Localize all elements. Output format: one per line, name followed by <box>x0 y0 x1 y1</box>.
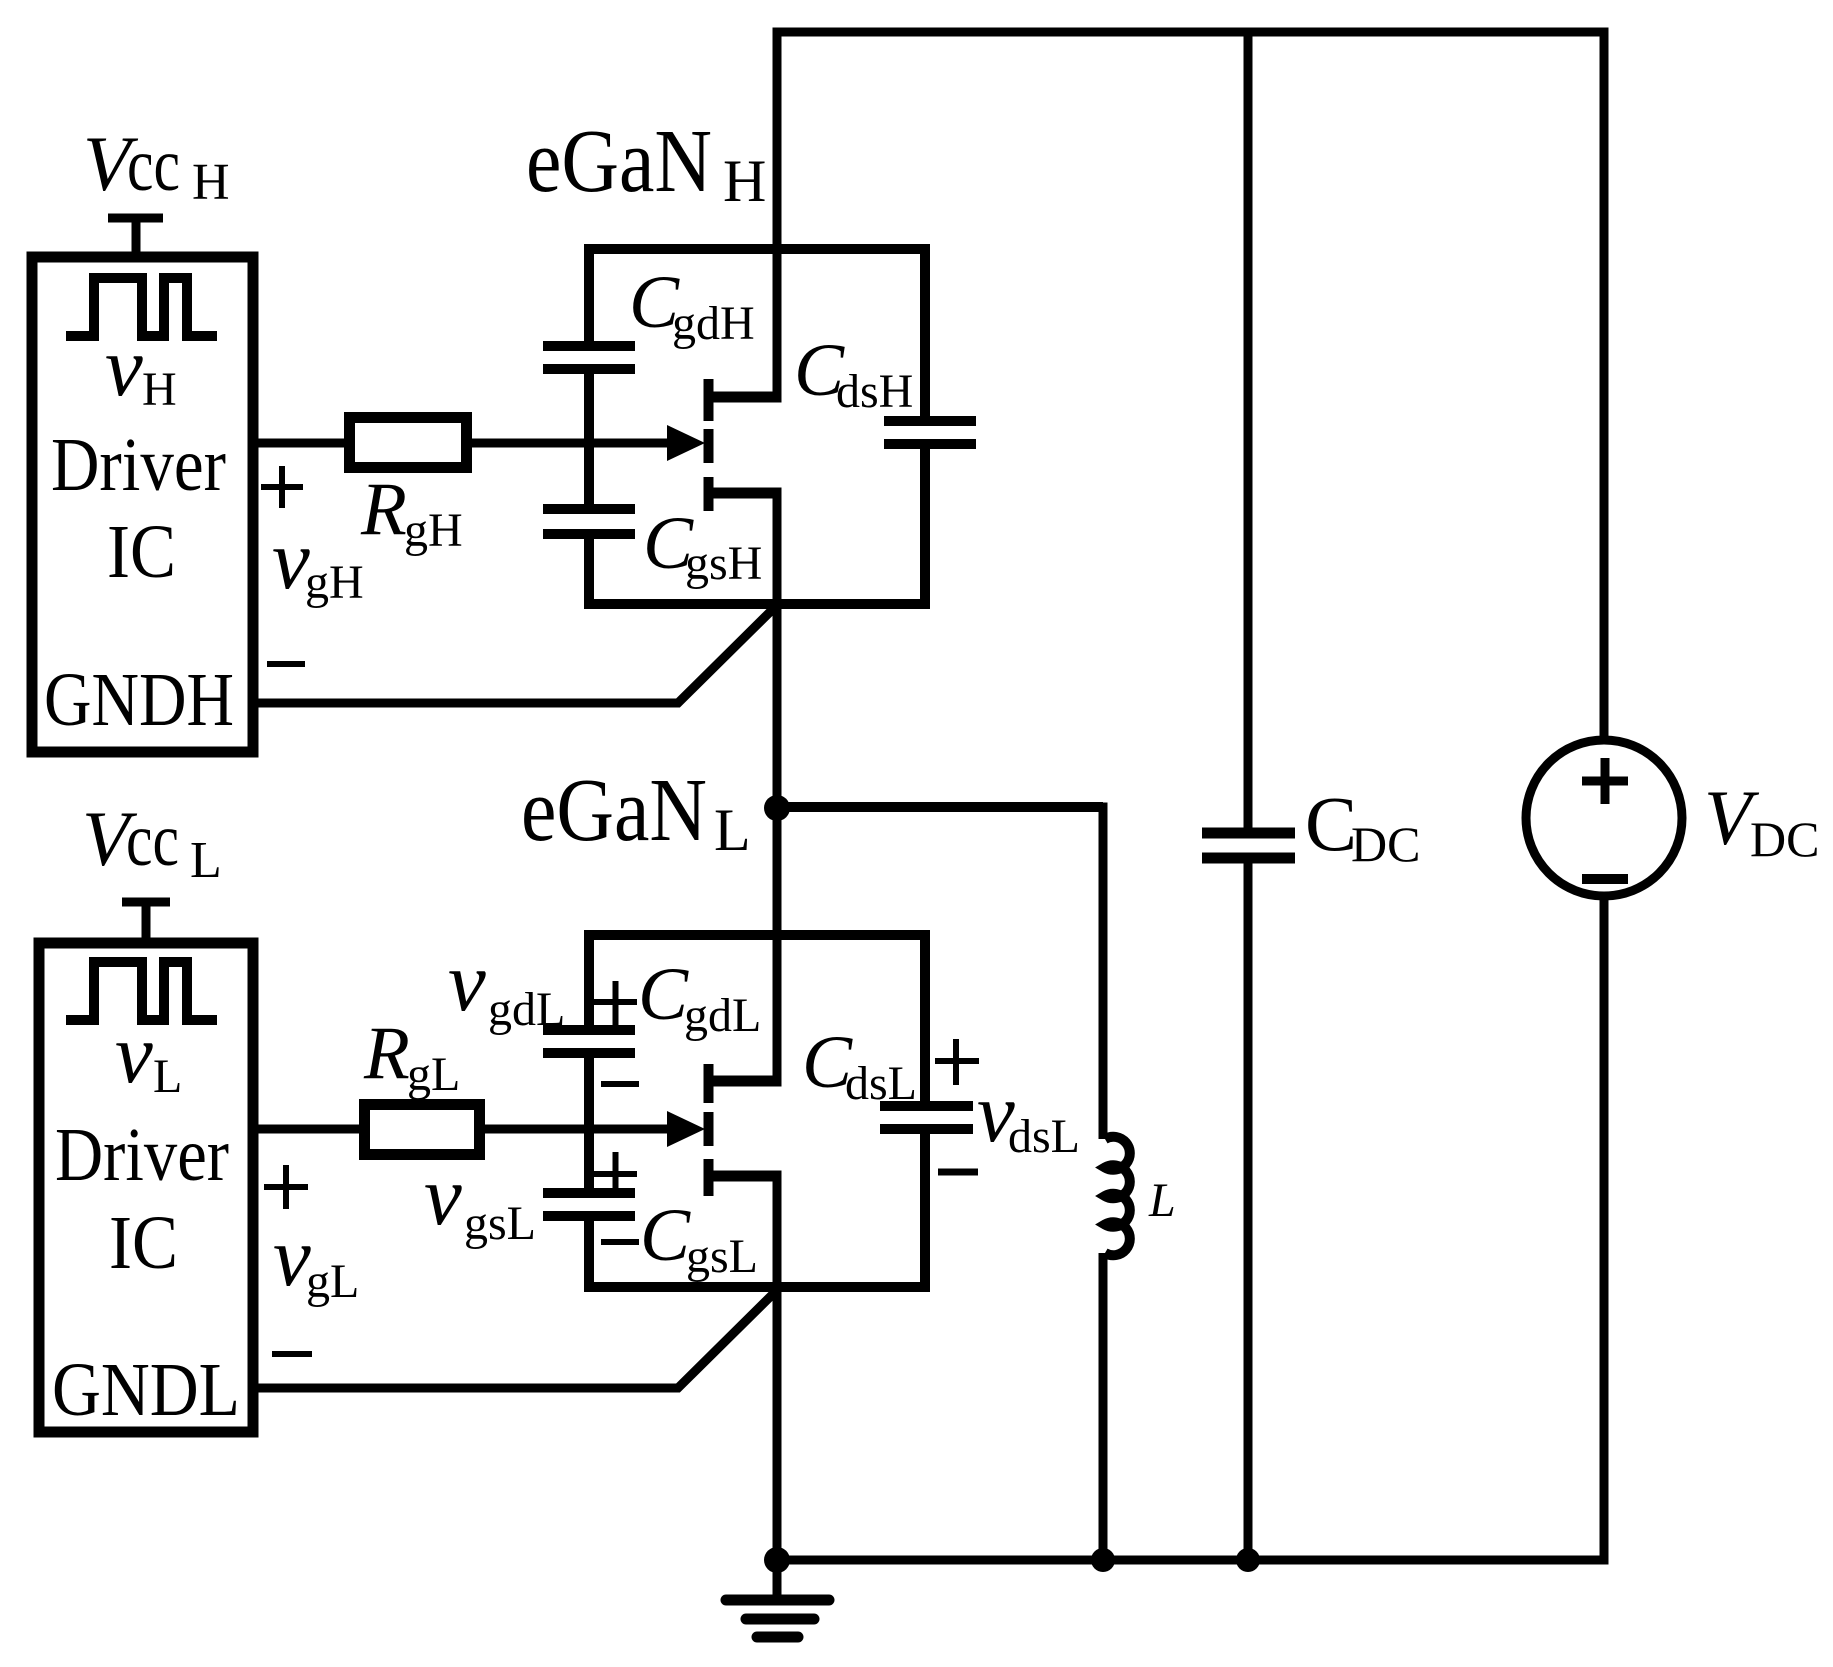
capacitor CdsH <box>884 421 976 444</box>
label CdsL <box>802 1021 917 1110</box>
node switch node junction dot <box>764 795 790 821</box>
wire CDC rail lower <box>1244 863 1253 1560</box>
wire gate drive high (Driver IC to RgH) <box>253 439 349 448</box>
eGaN_H package box <box>584 244 926 609</box>
gate arrowhead high <box>667 425 705 461</box>
svg-text:v: v <box>115 1007 153 1101</box>
svg-text:gdL: gdL <box>488 983 565 1036</box>
capacitor CgsH <box>543 509 635 534</box>
gate arrowhead low <box>667 1111 705 1147</box>
svg-text:dsL: dsL <box>1008 1110 1080 1163</box>
wire gate drive high (RgH to gate arrow) <box>467 439 672 448</box>
svg-text:gdH: gdH <box>672 297 755 350</box>
wire inductor branch upper <box>1099 803 1108 1140</box>
source VDC (circle with plus minus) <box>1526 740 1682 896</box>
wire switch node to inductor branch <box>777 802 1103 812</box>
wire switch-node vertical middle (source of eGaN_H to drain of eGaN_L) <box>773 493 782 1081</box>
wire top rail <box>773 28 1609 37</box>
label RgL <box>363 1012 460 1101</box>
label CgdL <box>638 953 761 1042</box>
svg-text:cc: cc <box>127 124 180 207</box>
transistor eGaN_L (HEMT symbol: gate arrow, gate/drain/source bars) <box>708 1064 782 1196</box>
svg-text:eGaN: eGaN <box>521 761 707 860</box>
label GNDH <box>44 658 234 742</box>
svg-text:GNDL: GNDL <box>52 1348 240 1432</box>
label vdsL <box>977 1066 1080 1163</box>
svg-text:gH: gH <box>305 556 364 609</box>
label CdsH <box>794 329 913 418</box>
capacitor CgsL <box>543 1193 635 1216</box>
wire VDC rail upper <box>1600 28 1609 745</box>
node bottom rail junction dot (inductor leg) <box>1091 1548 1115 1572</box>
svg-text:v: v <box>424 1149 462 1243</box>
label vgH <box>272 513 364 609</box>
eGaN_L package box <box>584 930 926 1292</box>
minus sign vdsL <box>938 1169 978 1176</box>
Driver IC box (low side) <box>39 943 253 1432</box>
svg-text:IC: IC <box>107 510 176 594</box>
plus sign vgL <box>264 1165 308 1209</box>
resistor RgH <box>350 418 467 468</box>
label VccH <box>83 120 230 211</box>
svg-text:gsL: gsL <box>686 1230 758 1283</box>
svg-text:IC: IC <box>109 1201 178 1285</box>
minus sign vgL <box>272 1351 312 1357</box>
svg-text:C: C <box>638 953 689 1036</box>
label VDC <box>1704 774 1819 867</box>
svg-text:gdL: gdL <box>684 989 761 1042</box>
minus sign vgH <box>267 661 305 667</box>
label vgsL <box>424 1149 536 1250</box>
label eGaN_L <box>521 761 751 863</box>
svg-text:gsH: gsH <box>685 537 762 590</box>
svg-text:L: L <box>1148 1174 1176 1227</box>
svg-text:v: v <box>105 320 143 414</box>
svg-text:Driver: Driver <box>55 1113 229 1197</box>
svg-text:C: C <box>640 1194 691 1277</box>
VccH supply tap <box>108 218 163 252</box>
wire gate drive low (Driver IC to RgL) <box>253 1125 364 1134</box>
node bottom rail junction dot (ground leg) <box>764 1547 790 1573</box>
minus sign CgsL <box>601 1239 639 1245</box>
svg-text:v: v <box>448 935 486 1029</box>
svg-text:gH: gH <box>404 504 463 557</box>
label CgdH <box>629 261 755 350</box>
wire switch-node vertical upper (drain of eGaN_H to top rail) <box>773 28 782 398</box>
capacitor CdsL <box>880 1106 973 1129</box>
capacitor CgdH <box>543 346 635 369</box>
transistor eGaN_H (HEMT symbol: gate arrow, gate/drain/source bars) <box>708 379 782 511</box>
capacitor CDC <box>1202 833 1295 858</box>
label vgdL <box>448 935 565 1036</box>
minus sign CgdL <box>601 1081 639 1087</box>
pulse waveform vH <box>66 278 217 336</box>
svg-text:R: R <box>363 1012 410 1095</box>
wire GNDH from Driver IC to source of eGaN_H (with diagonal) <box>253 606 776 703</box>
svg-text:cc: cc <box>126 799 179 882</box>
label eGaN_H <box>526 112 766 214</box>
plus sign vgH <box>261 466 303 508</box>
label vL <box>115 1007 182 1103</box>
label Driver (high) <box>51 423 226 507</box>
svg-text:L: L <box>714 797 751 863</box>
label CDC <box>1305 780 1420 872</box>
label GNDL <box>52 1348 240 1432</box>
label IC (high) <box>107 510 176 594</box>
wire gate drive low (RgL to gate arrow) <box>480 1125 672 1134</box>
wire CDC rail upper <box>1244 28 1253 829</box>
label VccL <box>82 795 222 889</box>
svg-text:gL: gL <box>306 1255 359 1308</box>
resistor RgL <box>365 1105 480 1155</box>
wire inductor branch lower <box>1099 1253 1108 1560</box>
wire bottom rail <box>773 1556 1609 1565</box>
svg-text:Driver: Driver <box>51 423 226 507</box>
capacitor CgdL <box>543 1030 635 1053</box>
svg-text:H: H <box>723 148 766 214</box>
inductor L coil <box>1105 1137 1130 1256</box>
label vgL <box>273 1210 359 1308</box>
svg-text:H: H <box>192 154 230 211</box>
svg-text:dsH: dsH <box>836 365 913 418</box>
svg-text:gsL: gsL <box>464 1197 536 1250</box>
VccL supply tap <box>122 902 170 938</box>
svg-text:DC: DC <box>1750 811 1819 867</box>
svg-text:R: R <box>360 468 407 551</box>
label CgsH <box>643 502 762 590</box>
label vH <box>105 320 177 416</box>
label L <box>1148 1174 1176 1227</box>
svg-text:H: H <box>142 363 177 416</box>
svg-text:dsL: dsL <box>845 1057 917 1110</box>
label Driver (low) <box>55 1113 229 1197</box>
svg-text:eGaN: eGaN <box>526 112 712 211</box>
svg-text:DC: DC <box>1351 816 1420 872</box>
node bottom rail junction dot (CDC leg) <box>1236 1548 1260 1572</box>
plus sign CgsL <box>592 1152 637 1196</box>
label IC (low) <box>109 1201 178 1285</box>
wire switch-node vertical lower (source of eGaN_L to bottom rail) <box>773 1176 782 1565</box>
svg-text:L: L <box>153 1050 182 1103</box>
label RgH <box>360 468 463 557</box>
svg-text:GNDH: GNDH <box>44 658 234 742</box>
plus sign CdsL <box>935 1039 979 1085</box>
svg-text:L: L <box>190 832 222 889</box>
svg-text:C: C <box>1305 780 1357 867</box>
svg-text:gL: gL <box>407 1048 460 1101</box>
Driver IC box (high side) <box>32 257 253 752</box>
ground <box>726 1560 829 1637</box>
label CgsL <box>640 1194 758 1283</box>
pulse waveform vL <box>66 962 217 1020</box>
plus sign CgdL <box>592 981 637 1025</box>
wire GNDL from Driver IC to source of eGaN_L (with diagonal) <box>253 1291 776 1388</box>
wire VDC rail lower <box>1600 892 1609 1565</box>
